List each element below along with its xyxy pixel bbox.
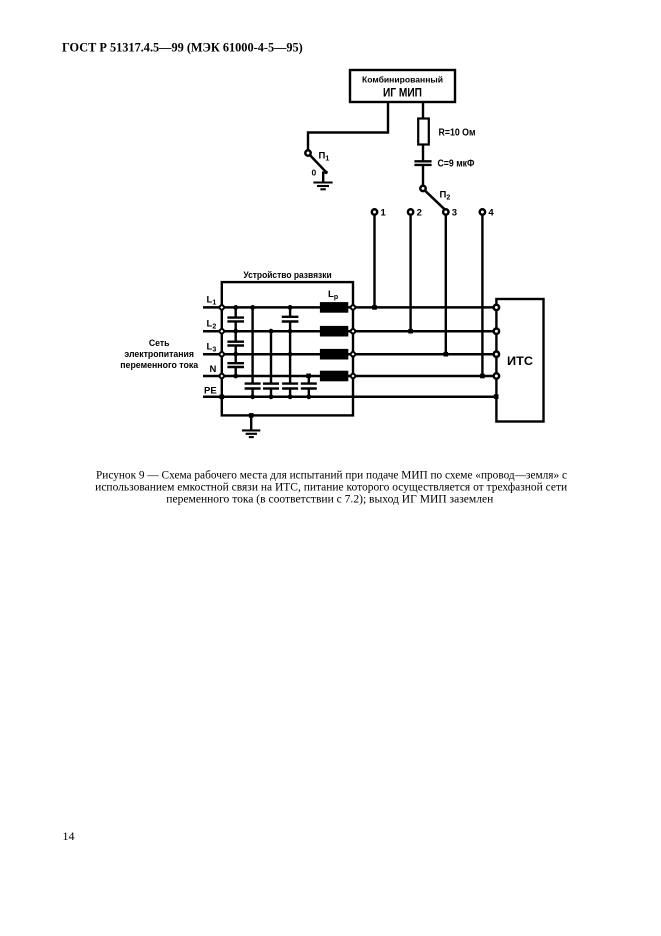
- wire node1 to L1: [373, 215, 375, 308]
- svg-text:П1: П1: [319, 151, 330, 163]
- ITS input circle L3: [494, 352, 499, 357]
- svg-text:ИТС: ИТС: [507, 354, 533, 368]
- wire capacitor to switch P2: [422, 165, 424, 186]
- inductor on L2: [320, 326, 348, 337]
- line L1: [203, 306, 496, 309]
- node 3: [443, 209, 448, 214]
- bottom capacitor D: [301, 382, 317, 384]
- svg-text:1: 1: [381, 208, 387, 219]
- svg-text:ИГ МИП: ИГ МИП: [383, 86, 422, 100]
- svg-text:Устройство развязки: Устройство развязки: [243, 270, 331, 280]
- node 4: [480, 209, 485, 214]
- svg-text:переменного тока: переменного тока: [120, 360, 199, 370]
- svg-text:Lр: Lр: [328, 289, 338, 301]
- svg-text:L1: L1: [207, 295, 217, 307]
- decoupling device box (Ustroystvo razvyazki): [222, 282, 353, 415]
- ITS PE junction: [494, 394, 499, 399]
- line L3: [203, 353, 496, 356]
- svg-text:Комбинированный: Комбинированный: [362, 75, 443, 85]
- svg-text:использованием емкостной связи: использованием емкостной связи на ИТС, п…: [95, 481, 567, 493]
- inductor Lp on L1: [320, 302, 348, 313]
- svg-text:электропитания: электропитания: [124, 349, 194, 359]
- wire from generator left output: [308, 102, 388, 150]
- svg-text:4: 4: [488, 208, 494, 219]
- svg-text:14: 14: [63, 829, 75, 843]
- ITS box: [496, 299, 543, 422]
- vertical V5 from N to bottom cap D: [308, 376, 310, 383]
- svg-text:0: 0: [312, 168, 317, 178]
- capacitor column V1: cap L1-L2: [234, 307, 236, 317]
- capacitor column V1: cap L2-L3: [234, 331, 236, 341]
- svg-text:R=10 Ом: R=10 Ом: [439, 128, 476, 139]
- entry terminal diamond L2: [219, 328, 225, 334]
- wire P1 to ground: [322, 172, 324, 183]
- capacitor C=9 uF: [414, 160, 431, 162]
- svg-text:C=9 мкФ: C=9 мкФ: [438, 158, 475, 169]
- switch P2 blade: [425, 191, 444, 210]
- wire node4 to N: [481, 215, 483, 376]
- wire resistor to capacitor: [422, 145, 424, 162]
- inductor on L3: [320, 349, 348, 360]
- line PE: [203, 396, 496, 399]
- svg-text:L2: L2: [207, 319, 217, 331]
- bottom capacitor B: [263, 382, 279, 384]
- svg-text:N: N: [210, 364, 217, 375]
- bottom capacitor A: [245, 382, 261, 384]
- svg-text:Рисунок 9 — Схема рабочего мес: Рисунок 9 — Схема рабочего места для исп…: [96, 469, 567, 481]
- wire node3 to L3: [445, 215, 447, 355]
- vertical V3 from L2 to bottom cap B: [270, 331, 272, 383]
- line N: [203, 375, 496, 378]
- line L2: [203, 330, 496, 333]
- wire from generator right output: [422, 102, 424, 119]
- svg-text:PE: PE: [204, 386, 217, 397]
- svg-text:П2: П2: [440, 190, 451, 202]
- ground symbol below decoupling box: [242, 429, 260, 431]
- ITS input circle N: [494, 373, 499, 378]
- exit terminal diamond N: [350, 373, 356, 379]
- vertical V2 from L1 to bottom cap A: [251, 307, 253, 383]
- ITS input circle L2: [494, 329, 499, 334]
- svg-text:переменного тока (в соответств: переменного тока (в соответствии с 7.2);…: [166, 494, 493, 506]
- switch P1 contact circle: [305, 150, 310, 155]
- exit terminal diamond L1: [350, 304, 356, 310]
- bottom capacitor C: [282, 382, 298, 384]
- capacitor column V1: cap L3-N: [234, 354, 236, 363]
- ITS input circle L1: [494, 305, 499, 310]
- svg-text:Сеть: Сеть: [149, 338, 170, 348]
- node 1: [372, 209, 377, 214]
- switch P1 blade: [310, 155, 326, 172]
- svg-text:3: 3: [452, 208, 457, 219]
- ground stem from decoupling box bottom: [250, 415, 252, 430]
- capacitor on V4 between L1 and L2: [282, 316, 299, 318]
- switch P2 contact circle: [420, 186, 425, 191]
- resistor R=10 Om: [418, 119, 429, 145]
- inductor on N: [320, 371, 348, 382]
- exit terminal diamond L3: [350, 351, 356, 357]
- entry terminal diamond L1: [219, 304, 225, 310]
- wire node2 to L2: [409, 215, 411, 332]
- exit terminal diamond L2: [350, 328, 356, 334]
- PE junction at box left edge: [220, 395, 225, 400]
- node 2: [408, 209, 413, 214]
- svg-text:ГОСТ Р 51317.4.5—99 (МЭК 61000: ГОСТ Р 51317.4.5—99 (МЭК 61000-4-5—95): [62, 40, 303, 54]
- generator box U1 (Комбинированный ИГ МИП): [350, 70, 455, 102]
- svg-text:L3: L3: [207, 342, 217, 354]
- svg-text:2: 2: [417, 208, 422, 219]
- entry terminal diamond L3: [219, 351, 225, 357]
- vertical V4 from L1 with series cap: [289, 307, 291, 316]
- ground symbol at P1: [313, 181, 332, 183]
- entry terminal diamond N: [219, 373, 225, 379]
